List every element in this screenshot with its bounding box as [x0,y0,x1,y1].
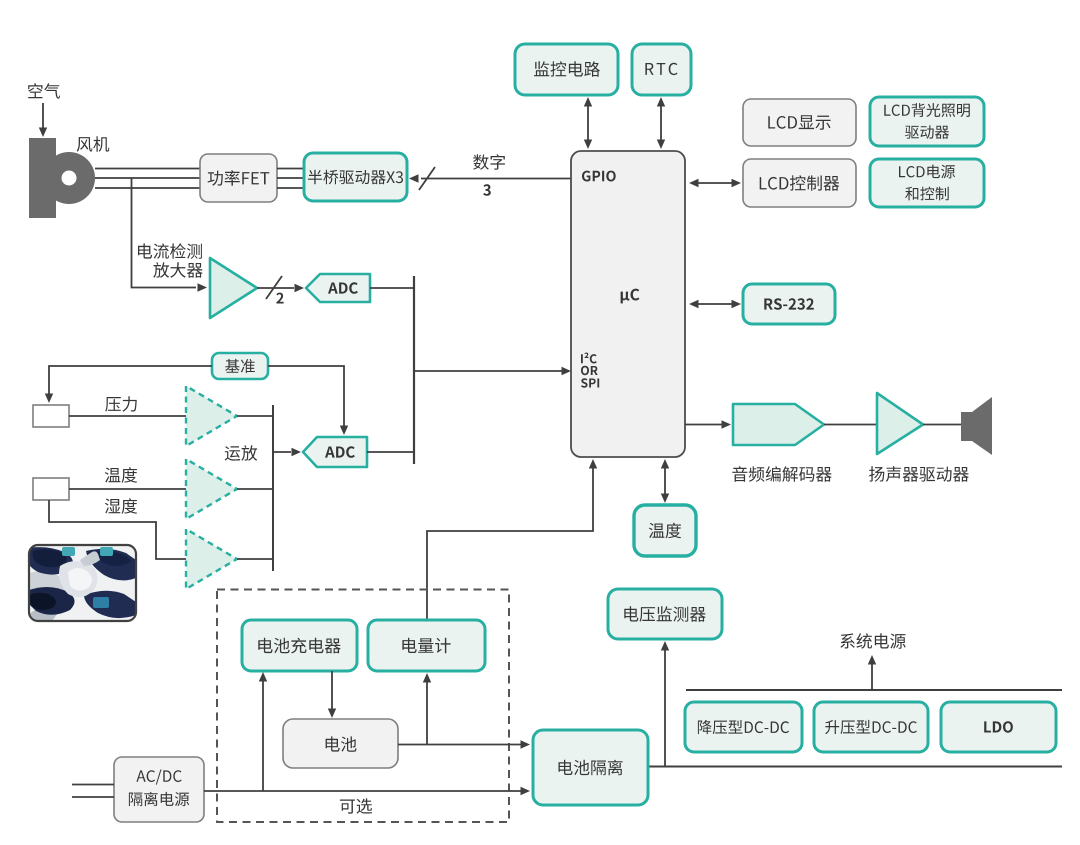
label 音频编解码器 (audio codec) [732,466,831,482]
wire AC/DC node to charger [262,676,264,791]
block ADC A2 (sensors) [303,437,367,467]
pin label I2C OR SPI [581,353,597,364]
op-amp humidity (dashed) [186,529,237,589]
label 扬声器驱动器 (speaker driver) [869,466,969,482]
block RS-232 [743,284,835,324]
wire GPIO to LCD controller (bidirectional) [694,182,734,184]
op-amp pressure (dashed) [186,386,237,446]
wire uC to RTC (bidirectional) [660,106,662,140]
block 温度 (temperature sensor) [634,505,696,556]
block 电池 (battery) [283,719,398,768]
wire pressure sensor to op-amp [69,415,186,417]
power rail top [686,689,1062,691]
bus-width slash digital 3 [419,167,435,190]
wire amp to ADC1 [257,287,294,289]
block 升压型DC-DC (boost DC-DC) [814,702,928,752]
op-amp speaker driver [877,393,923,454]
wire AC/DC to battery isolation [204,790,521,792]
wire charger to battery [331,671,333,711]
wire op-amp bus to ADC2 [273,451,291,453]
label 风机 (fan) [77,136,110,152]
wire ADC2 to analog bus [367,451,414,453]
label 空气 (air inlet) [28,83,60,99]
op-amp temperature (dashed) [186,459,237,519]
wire uC to temp sensor (bidirectional) [664,466,666,496]
air inlet arrow [42,103,44,128]
wire 3-phase fan to power FET [95,168,200,170]
label 系统电源 (system power) [840,633,905,649]
wire uC to audio codec [685,424,722,426]
wire temp sensor to op-amp [69,488,186,490]
wire battery to isolation [398,744,521,746]
fan rotor (blower) [43,152,95,204]
block 基准 (voltage reference) [212,353,268,379]
wire op-amp1 out [237,415,273,417]
system power arrow [871,660,873,690]
sensor 压力 (pressure sensor) [33,405,69,427]
wire op-amp2 out [237,488,273,490]
optional section dashed boundary [217,590,509,823]
block 电池充电器 (battery charger) [242,620,357,671]
sensor 温度/湿度 (temp/humidity sensor) [33,478,69,500]
block RTC [632,44,691,95]
wire GPIO digital to half-bridge driver [421,178,572,180]
block audio codec (pentagon) [733,404,824,445]
block LCD背光照明驱动器 (LCD backlight driver) [870,97,984,146]
label 湿度 (humidity) [105,498,137,514]
wire fuel gauge to uC [427,463,593,621]
block 监控电路 (supervisor circuit) [515,44,618,95]
node op-amp output bus [272,405,274,571]
label 2 (bus width) [276,293,283,304]
block 电量计 (fuel gauge) [368,620,485,671]
node analog bus [413,276,415,464]
block AC/DC 隔离电源 (isolated AC/DC supply) [114,757,204,822]
label 数字 (digital) [473,154,505,170]
wire ADC1 to analog bus [370,287,414,289]
block 电池隔离 (battery isolation) [533,730,648,805]
op-amp current sense amplifier [210,258,257,318]
wire power FET to half-bridge driver [277,168,304,170]
label 温度 (temperature) [105,467,137,483]
label 运放 (op-amps) [225,445,258,461]
microcontroller U1 uC [571,151,685,457]
wire analog bus to uC I2C/SPI [414,370,566,372]
block LCD控制器 (LCD controller) [743,159,856,207]
label 3 (bus width) [483,184,491,196]
wire AC mains stubs [72,784,114,786]
label uC [621,289,640,304]
block LCD显示 (LCD display) [743,99,856,146]
wire driver to speaker [923,424,961,426]
wire uC to RS-232 (bidirectional) [694,303,734,305]
speaker LS1 [961,412,972,441]
wire battery node to fuel gauge [426,677,428,745]
photo CPAP mask [27,545,136,621]
label 电流检测放大器 (current sense amplifier) [138,243,202,259]
power rail bottom [648,766,1062,768]
wire fan phase tap to current sense amp [132,178,197,288]
wire op-amp3 out [237,558,273,560]
wire humidity sensor to op-amp [49,500,186,559]
block 半桥驱动器X3 (half-bridge driver x3) [304,153,407,201]
wire reference to ADC2 [268,366,344,428]
label 压力 (pressure) [105,396,137,412]
block ADC A1 (motor current) [306,274,370,302]
block LDO [941,702,1056,752]
block 功率FET (power FET) [200,154,277,202]
block 降压型DC-DC (buck DC-DC) [685,702,802,752]
wire power rail to voltage monitor [664,645,666,767]
block LCD电源和控制 (LCD power and control) [870,159,984,207]
pin label GPIO [582,171,616,182]
block 电压监测器 (voltage monitor) [608,589,722,639]
wire codec to speaker driver [824,424,877,426]
bus-width slash 2 [266,276,282,299]
fan housing [29,138,56,218]
wire uC to supervisor (bidirectional) [587,106,589,140]
wire reference to pressure sensor [49,366,212,395]
label 可选 (optional) [340,798,372,813]
